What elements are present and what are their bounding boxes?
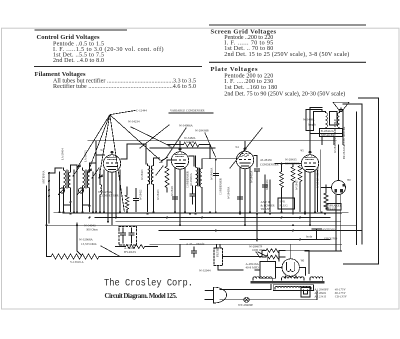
top bus drop left	[95, 141, 97, 155]
T5 wires down	[336, 194, 341, 251]
mid cap C5	[191, 247, 196, 257]
tube T4 pin wires	[305, 170, 315, 225]
svg-text:FILTER: FILTER	[217, 248, 220, 257]
RF coil primary	[83, 168, 85, 188]
T5 top wire	[338, 145, 340, 181]
tube T2 plate wire	[189, 156, 194, 166]
antenna coil trimmer circle	[59, 188, 64, 193]
grid cap blob T2	[179, 148, 182, 150]
speaker top wires	[322, 110, 343, 145]
plug tube T5	[332, 181, 346, 195]
grid cap blob T3	[244, 148, 247, 150]
antenna lead wire	[49, 168, 62, 173]
pointer W-3488L	[230, 128, 262, 168]
wire coilA sec bottom	[70, 190, 72, 212]
cap mid wire	[190, 186, 195, 204]
transformer winding group1	[253, 277, 272, 281]
IF coil E primary	[148, 165, 150, 186]
speaker second wire	[310, 108, 343, 134]
svg-text:2nd Det. 75 to 90 (250V s: 2nd Det. 75 to 90 (250V scale), 20-30 (5…	[224, 90, 345, 97]
antenna coil core	[65, 170, 67, 188]
RF coil trimmer arrow	[78, 187, 86, 195]
svg-text:BLUE-MAROON TRACER: BLUE-MAROON TRACER	[343, 127, 346, 159]
grid cap blob T1	[111, 151, 114, 153]
svg-text:length: length	[187, 140, 195, 144]
svg-text:W-28426A SPEAKER FIELD: W-28426A SPEAKER FIELD	[334, 119, 337, 153]
svg-text:WT-28409P: WT-28409P	[238, 303, 253, 307]
power resistor W-28407P lower	[262, 251, 285, 259]
svg-text:body: body	[306, 235, 313, 239]
filter feed wire	[223, 256, 263, 258]
svg-text:42-28436A: 42-28436A	[190, 173, 193, 186]
plug bottom wire	[220, 299, 244, 301]
svg-text:'80: '80	[347, 178, 351, 182]
grid resistor wire right	[199, 145, 210, 150]
wire coilA bottom	[63, 188, 65, 212]
svg-text:V-13919 A: V-13919 A	[70, 260, 84, 264]
tube T2 '24	[171, 149, 188, 169]
svg-text:Filament Voltages: Filament Voltages	[35, 71, 86, 78]
IF coil C core	[198, 168, 199, 186]
transformer top wires	[279, 250, 309, 273]
bypass condenser box	[119, 227, 137, 246]
R5 top wire	[325, 185, 327, 193]
trimmer arrow coil E	[156, 166, 163, 175]
fan apex	[77, 111, 160, 213]
speaker frame	[330, 112, 338, 126]
rectifier output wire	[268, 244, 291, 261]
svg-text:GROUND: GROUND	[324, 237, 338, 241]
wire coilA top	[71, 165, 78, 170]
tuning cap B arrow	[92, 168, 99, 178]
antenna terminal	[48, 172, 50, 174]
antenna stub right	[312, 229, 322, 239]
fuse cross	[245, 298, 249, 302]
svg-text:W-28427: W-28427	[296, 179, 299, 190]
pointer W-34088A	[166, 128, 186, 158]
resistor R5 vertical	[324, 193, 328, 209]
speaker horn	[333, 102, 349, 111]
small winding aux	[100, 170, 102, 213]
svg-text:W-32044: W-32044	[199, 269, 211, 273]
svg-text:ANTENNA: ANTENNA	[322, 228, 338, 232]
transformer bottom box	[273, 285, 313, 291]
svg-text:'24: '24	[168, 145, 172, 149]
bus line 7	[180, 239, 330, 241]
right low wire	[305, 250, 342, 252]
svg-text:CONDENSER: CONDENSER	[220, 178, 223, 195]
bus line 8	[150, 243, 342, 245]
svg-text:40-8 MFD: 40-8 MFD	[246, 266, 260, 270]
node dot coilA	[70, 201, 72, 203]
cap below T2	[173, 191, 178, 205]
svg-text:VARIABLE CONDENSER: VARIABLE CONDENSER	[170, 109, 206, 113]
output transformer primary	[326, 112, 328, 129]
switch box	[301, 288, 310, 298]
pointer volume	[101, 246, 120, 257]
tube T4 grid cap wire	[309, 141, 311, 152]
grid return wire	[95, 163, 97, 212]
node dot C top	[215, 159, 217, 161]
fan arrowhead 2	[88, 168, 92, 172]
speaker plug box	[327, 204, 341, 211]
svg-text:'24: '24	[235, 145, 239, 149]
coil A outer verticals	[60, 170, 75, 212]
detector components vertical	[265, 175, 270, 212]
det cap wire	[256, 171, 258, 212]
RF coil trimmer circle	[78, 188, 83, 193]
bus line 6	[159, 230, 362, 232]
power resistor W-28407P upper	[266, 249, 285, 253]
bus junction dots	[76, 211, 311, 240]
RF coil secondary	[88, 170, 90, 190]
tube T2 grid cap wire	[179, 141, 181, 149]
speaker box drops	[322, 137, 334, 145]
screen cap wire	[215, 160, 217, 212]
transformer to rectifier wires	[276, 268, 306, 279]
IF coil C secondary	[200, 168, 202, 189]
speaker left wire	[310, 112, 326, 131]
grid cap blob T4	[309, 151, 312, 153]
screen resistor R1 vertical	[165, 166, 169, 192]
condenser block A-28416	[260, 261, 276, 278]
IF coil E core	[150, 166, 151, 184]
svg-text:1600 Ohm: 1600 Ohm	[252, 248, 266, 252]
bypass cap 2	[129, 228, 134, 243]
svg-text:TRANS: TRANS	[261, 207, 271, 211]
pointer arrow to coil E	[160, 157, 168, 163]
svg-text:Rectifier tube .............: Rectifier tube .........................…	[53, 83, 196, 90]
pointer X line 2	[140, 125, 169, 148]
wire left drop to volume control	[47, 186, 52, 257]
transformer core bar	[251, 281, 325, 283]
right table top rule	[209, 24, 366, 26]
extra top wire	[150, 147, 215, 149]
svg-text:300 Ohm: 300 Ohm	[86, 228, 98, 232]
grid resistor W-348L wire	[167, 144, 184, 146]
output transformer secondary	[338, 112, 340, 129]
antenna coil secondary	[69, 170, 71, 190]
left table mid rule	[34, 66, 202, 68]
tube T3 pin wires	[240, 167, 250, 225]
extra dots row	[46, 211, 327, 226]
tube T3 plate wire	[254, 156, 257, 168]
svg-text:BY-PASS: BY-PASS	[124, 250, 136, 254]
svg-text:43-28436: 43-28436	[260, 158, 272, 162]
RF coil core	[84, 170, 86, 188]
bus line 2	[63, 213, 342, 215]
resistor R4 vertical	[298, 166, 302, 213]
resistor low wires	[116, 246, 158, 248]
node dot ant bus	[48, 180, 50, 182]
svg-text:'80: '80	[301, 259, 305, 263]
tube T4 '45	[301, 152, 318, 172]
AC plug prongs	[205, 291, 214, 300]
speaker label box	[320, 129, 343, 137]
wire T5 left pin	[321, 187, 332, 189]
svg-text:length: length	[308, 123, 316, 127]
svg-text:2nd Det. 15 to 25 (250V s: 2nd Det. 15 to 25 (250V scale), 3-8 (50V…	[224, 51, 349, 58]
pointer X line 1	[131, 127, 170, 146]
grid resistor W-348L	[184, 142, 200, 146]
volume control resistor	[51, 254, 117, 259]
wire low resistor	[103, 244, 180, 256]
svg-text:W-28428 CHOKE: W-28428 CHOKE	[317, 167, 320, 188]
svg-text:A-34... .05mfd: A-34... .05mfd	[186, 242, 205, 246]
right vertical wire A	[356, 112, 358, 245]
bus line 5	[47, 224, 357, 226]
svg-text:W-28436A: W-28436A	[211, 168, 214, 180]
rectifier tube T6 '80	[282, 259, 299, 276]
screen cap symbol	[213, 174, 218, 176]
det small cap	[263, 185, 268, 187]
svg-text:CONDENSER: CONDENSER	[100, 194, 120, 198]
svg-text:W-34086A: W-34086A	[179, 124, 194, 128]
plug top wire	[220, 285, 271, 290]
svg-text:Plate Voltages: Plate Voltages	[211, 66, 258, 73]
tube T4 plate wire up	[306, 110, 322, 141]
coupling wire horiz	[275, 163, 302, 165]
tie coil A bottom	[64, 204, 90, 206]
svg-text:CONDENSER: CONDENSER	[260, 163, 280, 167]
bus line 3	[95, 217, 330, 219]
interstage wire	[76, 165, 78, 212]
tuning cap A arrow	[73, 166, 80, 176]
svg-text:2nd Det. ..4.0 to 8.0: 2nd Det. ..4.0 to 8.0	[53, 58, 104, 64]
plug box lower	[278, 198, 295, 209]
svg-text:ANTENNA: ANTENNA	[43, 170, 46, 184]
tube T3 '24	[236, 149, 253, 169]
svg-text:W-28431: W-28431	[171, 185, 174, 196]
transformer winding group3	[310, 277, 323, 281]
bypass cap 1	[120, 228, 125, 243]
svg-text:CONDENSER: CONDENSER	[187, 171, 190, 188]
screen resistor R1 top wire	[167, 160, 175, 166]
svg-text:'45: '45	[300, 149, 304, 153]
svg-text:Control Grid Voltages: Control Grid Voltages	[37, 34, 100, 41]
coil B outer vertical	[92, 172, 94, 212]
T1 bypass cap	[134, 189, 139, 212]
left extra dots	[48, 189, 101, 213]
tube T1 pin wires	[104, 170, 120, 225]
resistor R2 vertical	[280, 164, 284, 212]
node dot left low	[48, 195, 50, 197]
left table top rule	[35, 29, 128, 31]
svg-text:LA-28414: LA-28414	[62, 148, 65, 160]
AC plug body	[214, 287, 227, 303]
top grid bus	[88, 140, 336, 142]
IF coil E secondary	[152, 165, 154, 186]
fan arrowhead 1	[77, 164, 81, 168]
svg-text:1st Det. ..160 to 180: 1st Det. ..160 to 180	[224, 85, 277, 91]
far right vertical	[344, 98, 379, 264]
filter block box	[214, 248, 223, 266]
right table mid rule	[209, 61, 366, 63]
filter box drops	[217, 244, 221, 248]
right vertical wire B	[343, 104, 362, 244]
cap below T3	[238, 191, 243, 205]
antenna coil primary	[64, 168, 66, 188]
svg-text:W-28423: W-28423	[141, 169, 144, 180]
wire coilB sec bottom	[89, 190, 91, 212]
svg-text:The Crosley Corp.: The Crosley Corp.	[104, 277, 193, 289]
node dot coilB	[89, 205, 91, 207]
svg-text:W-34234: W-34234	[128, 120, 140, 124]
filter to condenser wire	[218, 266, 260, 271]
resistor horizontal low	[126, 245, 145, 249]
volume control wiper	[77, 223, 81, 255]
tube T1 plate wire	[121, 144, 146, 164]
wire C to T3	[202, 158, 237, 160]
svg-text:W-28436B: W-28436B	[195, 129, 209, 133]
svg-text:C-12444: C-12444	[136, 109, 147, 113]
tube T2 pin wires	[175, 168, 185, 226]
antenna coil trimmer arrow	[59, 187, 67, 195]
fuse circle	[244, 297, 249, 302]
pointer W-28436B	[205, 133, 216, 157]
coil E wires	[148, 158, 160, 212]
svg-text:'24: '24	[100, 148, 104, 152]
fuse to transformer wire	[249, 291, 317, 300]
transformer bottom winding	[275, 286, 311, 289]
svg-text:PLUG: PLUG	[328, 207, 337, 211]
fan arrowhead 3	[99, 174, 103, 178]
choke wires right	[318, 150, 321, 212]
resistor R3 vertical	[291, 164, 295, 215]
bus line 4	[116, 221, 340, 223]
tube T1 '24	[103, 152, 120, 172]
variable condenser underline	[169, 112, 213, 114]
pointer 1600 ohm	[256, 252, 266, 258]
tube T3 grid cap wire	[244, 141, 246, 149]
wire left vertical	[48, 173, 50, 223]
svg-text:W-28422: W-28422	[140, 189, 143, 200]
T1 cathode resistor	[125, 187, 129, 212]
wire coilB top to grid	[90, 155, 105, 170]
speaker horn stem	[340, 108, 342, 112]
svg-text:Circuit Diagram. Model 125.: Circuit Diagram. Model 125.	[105, 292, 178, 300]
svg-text:CD-135V: CD-135V	[335, 295, 348, 299]
svg-text:A3 2141I: A3 2141I	[314, 295, 327, 299]
switch marks	[304, 290, 308, 294]
svg-text:W-28438A: W-28438A	[228, 187, 231, 199]
coil C wires	[196, 151, 211, 213]
node dot coupling	[281, 163, 283, 165]
transformer winding group2	[282, 277, 304, 281]
svg-text:W-28434: W-28434	[266, 179, 269, 190]
det B wire	[256, 214, 258, 241]
svg-text:W-28435A: W-28435A	[251, 171, 254, 183]
IF coil C primary	[196, 166, 198, 187]
svg-text:PLUG: PLUG	[280, 204, 289, 208]
bus line 1	[54, 211, 348, 213]
det cap symbol	[254, 169, 259, 171]
wire coilB bottom	[82, 188, 84, 212]
svg-text:W-28433: W-28433	[157, 189, 160, 200]
